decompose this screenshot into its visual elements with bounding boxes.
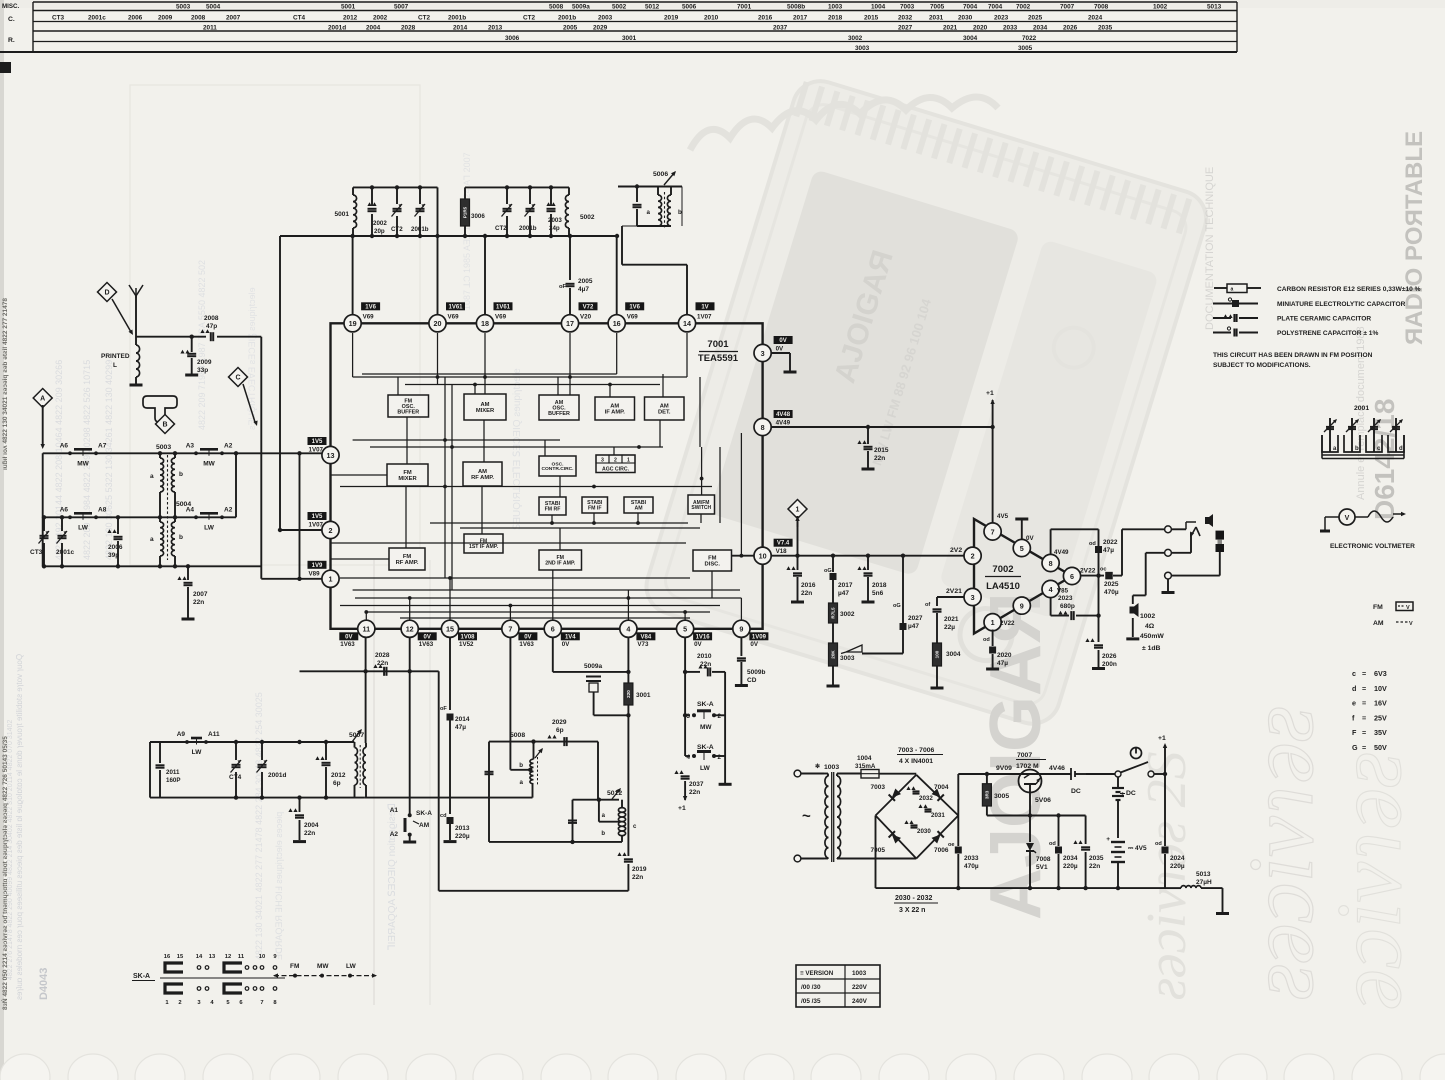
svg-text:1V5: 1V5	[312, 439, 323, 445]
svg-text:DET.: DET.	[658, 409, 671, 415]
svg-text:0V: 0V	[345, 634, 352, 640]
svg-text:12: 12	[406, 625, 414, 634]
amp pin 6 output	[1063, 567, 1080, 584]
svg-text:V: V	[1406, 605, 1410, 611]
wire 5006 bottom	[637, 225, 671, 227]
pin 11 of IC7001	[358, 620, 375, 637]
resistor 3001	[624, 683, 633, 705]
ghost radio watermark	[640, 74, 1213, 730]
svg-text:SK-A: SK-A	[133, 973, 150, 980]
capacitor 2021 22u	[936, 597, 938, 606]
svg-text:1V4: 1V4	[565, 634, 576, 640]
FM OSC buffer block	[388, 395, 429, 417]
wiper wire to 2027	[862, 653, 903, 655]
svg-text:DOCUMENTATION TECHNIQUE: DOCUMENTATION TECHNIQUE	[1204, 167, 1216, 330]
svg-text:7: 7	[260, 1000, 263, 1006]
pin 18 of IC7001	[476, 315, 493, 332]
svg-text:5002: 5002	[612, 4, 627, 11]
svg-text:DISC.: DISC.	[705, 561, 721, 567]
pin 6 of IC7001	[544, 620, 561, 637]
output wire	[1081, 575, 1104, 577]
svg-text:/00 /30: /00 /30	[801, 984, 821, 991]
svg-text:2031: 2031	[931, 812, 945, 819]
svg-text:4Ω: 4Ω	[1145, 623, 1155, 630]
wire pin19 drop	[352, 236, 354, 324]
svg-text:2020: 2020	[973, 25, 988, 32]
svg-text:1702 M: 1702 M	[1016, 763, 1039, 770]
AM OSC buffer block	[539, 395, 579, 420]
amp pin 5 ground up	[1021, 519, 1023, 540]
svg-text:2034: 2034	[1063, 855, 1078, 862]
FM 1st IF amp block	[464, 534, 503, 553]
svg-text:ꓢƎUϘIЯꓕƆƎꓶƎ ꓢƎƆƎIԚ ƨɘupiɿtɔɘ: ꓢƎUϘIЯꓕƆƎꓶƎ ꓢƎƆƎIԚ ƨɘupiɿtɔɘle	[512, 368, 523, 530]
svg-text:200n: 200n	[1102, 661, 1117, 668]
svg-text:2013: 2013	[455, 825, 470, 832]
svg-text:220µ: 220µ	[455, 833, 470, 840]
svg-text:2028: 2028	[401, 25, 416, 32]
svg-text:5013: 5013	[1196, 871, 1211, 878]
svg-text:D: D	[104, 290, 109, 297]
node C diamond	[229, 368, 248, 387]
op-amp 7002 triangle	[974, 519, 1072, 634]
svg-text:6p: 6p	[333, 780, 341, 787]
svg-text:315mA: 315mA	[855, 763, 876, 770]
mains version table	[796, 965, 880, 1007]
svg-text:ELECTRONIC VOLTMETER: ELECTRONIC VOLTMETER	[1330, 543, 1415, 550]
wire 2004 junction	[297, 740, 301, 744]
diode 7006	[931, 831, 944, 844]
svg-text:5009b: 5009b	[747, 669, 765, 676]
svg-text:D4043: D4043	[38, 968, 50, 1000]
svg-text:11: 11	[238, 954, 245, 960]
svg-text:R.: R.	[8, 37, 15, 44]
pin 1 of IC7001	[322, 570, 339, 587]
svg-text:6: 6	[551, 625, 555, 634]
svg-text:7004: 7004	[988, 4, 1003, 11]
svg-text:V69: V69	[363, 313, 375, 320]
pin 8 supply rail	[771, 426, 992, 428]
svg-text:2006: 2006	[108, 544, 123, 551]
IC internal wiring mesh	[353, 376, 687, 378]
trimmer 2001b FM osc	[419, 187, 421, 204]
svg-text:7008: 7008	[1036, 856, 1051, 863]
svg-text:2005: 2005	[578, 278, 593, 285]
svg-text:A11: A11	[208, 731, 220, 738]
svg-text:ıuƃıł ıoʌ 4822 130 34021 ƨəɔəi: ıuƃıł ıoʌ 4822 130 34021 ƨəɔəiq ƨəb ətƨi…	[2, 298, 9, 470]
svg-text:b: b	[179, 471, 183, 478]
pin 14 of IC7001	[678, 315, 695, 332]
svg-text:2023: 2023	[1058, 595, 1073, 602]
wire pin2 feed	[280, 529, 331, 531]
wire pin5 chain	[684, 637, 686, 756]
svg-text:100: 100	[935, 650, 940, 658]
wire pin14 up	[686, 265, 688, 324]
svg-text:3005: 3005	[994, 793, 1009, 800]
svg-text:4822 209 71984 1987 TCA 5550 4: 4822 209 71984 1987 TCA 5550 4822 502	[197, 260, 207, 430]
svg-text:CT2: CT2	[495, 225, 507, 232]
switch A6-A7 MW	[68, 451, 72, 455]
svg-text:5004: 5004	[176, 501, 191, 508]
svg-text:2029: 2029	[552, 719, 567, 726]
svg-text:47µ: 47µ	[455, 724, 466, 731]
jack contact 3	[1165, 572, 1172, 579]
svg-text:1003: 1003	[828, 4, 843, 11]
pin 3 ground	[771, 352, 790, 354]
capacitor 2008 47p	[210, 332, 212, 341]
svg-text:A1: A1	[390, 807, 399, 814]
svg-text:LW: LW	[192, 749, 203, 756]
svg-text:10: 10	[759, 552, 767, 561]
svg-text:2023: 2023	[994, 15, 1009, 22]
svg-text:b: b	[601, 831, 605, 837]
node A diamond	[33, 389, 52, 408]
svg-text:2025: 2025	[1104, 581, 1119, 588]
svg-text:2V22: 2V22	[1080, 568, 1096, 575]
svg-text:V85: V85	[1057, 588, 1069, 595]
svg-text:2018: 2018	[872, 582, 887, 589]
IF rail to 5008	[365, 797, 533, 799]
OSC contr circ block	[539, 456, 576, 476]
pin 10 of IC7001	[754, 547, 771, 564]
coil 5002	[568, 187, 570, 195]
svg-text:2V2: 2V2	[950, 547, 962, 554]
svg-text:1V07: 1V07	[309, 447, 324, 454]
svg-text:2001b: 2001b	[558, 15, 576, 22]
svg-text:2025: 2025	[1028, 15, 1043, 22]
svg-text:33p: 33p	[197, 367, 208, 374]
svg-text:A6: A6	[60, 506, 69, 513]
svg-text:22n: 22n	[700, 661, 711, 668]
svg-text:A2: A2	[224, 506, 233, 513]
wire pin7 into 5008	[509, 637, 511, 769]
AM RF amp block	[463, 462, 502, 486]
svg-text:LA4510: LA4510	[986, 581, 1020, 592]
speaker 1002 wire	[1146, 552, 1165, 554]
svg-text:b: b	[179, 534, 183, 541]
svg-text:PLATE CERAMIC CAPACITOR: PLATE CERAMIC CAPACITOR	[1277, 316, 1371, 323]
svg-text:2003: 2003	[598, 15, 613, 22]
svg-text:25V: 25V	[1374, 713, 1387, 722]
svg-text:0V: 0V	[524, 634, 531, 640]
wire pin12 down	[409, 637, 411, 815]
svg-text:7001: 7001	[737, 4, 752, 11]
svg-text:8: 8	[761, 423, 765, 432]
svg-text:V73: V73	[637, 641, 649, 648]
svg-text:LW: LW	[700, 765, 711, 772]
svg-text:7: 7	[508, 625, 512, 634]
svg-text:7005: 7005	[930, 4, 945, 11]
svg-text:A2: A2	[224, 442, 233, 449]
svg-text:CT4: CT4	[293, 15, 306, 22]
FM osc group rail	[353, 186, 438, 188]
svg-text:15: 15	[177, 954, 184, 960]
svg-text:LW: LW	[204, 524, 215, 531]
svg-text:7004: 7004	[963, 4, 978, 11]
svg-text:470µ: 470µ	[964, 863, 979, 870]
wire MW-LW link	[235, 453, 237, 517]
svg-text:1V6: 1V6	[365, 304, 376, 310]
bridge rectifier diamond	[876, 775, 917, 816]
capacitor 2018 5n6	[866, 554, 870, 558]
pin 12 of IC7001	[401, 620, 418, 637]
svg-text:TEA5591: TEA5591	[698, 353, 739, 364]
wire antenna to C2008	[136, 336, 206, 338]
capacitor 2034 220u	[1056, 813, 1060, 817]
svg-text:A2: A2	[390, 831, 399, 838]
speaker 1002	[1130, 603, 1139, 617]
svg-text:1V08: 1V08	[460, 634, 475, 640]
svg-text:470µ: 470µ	[1104, 589, 1119, 596]
svg-text:cd: cd	[440, 813, 447, 819]
svg-text:27µH: 27µH	[1196, 879, 1212, 886]
amp pin 7 supply wire	[992, 427, 994, 523]
svg-text:+: +	[1106, 836, 1110, 843]
svg-text:əɔivɿəƨ: əɔivɿəƨ	[1318, 752, 1420, 1010]
svg-text:16: 16	[164, 954, 171, 960]
svg-text:2026: 2026	[1102, 653, 1117, 660]
svg-text:PRINTED: PRINTED	[101, 353, 130, 360]
svg-text:5V1: 5V1	[1036, 864, 1048, 871]
svg-text:4822 130 34021 4822 277 21478: 4822 130 34021 4822 277 21478 4822 284 3…	[254, 692, 264, 960]
svg-text:7002: 7002	[1016, 4, 1031, 11]
svg-text:2001c: 2001c	[56, 549, 74, 556]
svg-text:3002: 3002	[848, 35, 863, 42]
svg-text:L: L	[113, 362, 117, 369]
svg-text:0V: 0V	[776, 346, 784, 353]
svg-text:FM: FM	[290, 963, 299, 970]
wire MW line	[43, 452, 331, 454]
svg-text:18: 18	[481, 319, 489, 328]
svg-text:2027: 2027	[898, 25, 913, 32]
svg-text:5013: 5013	[1207, 4, 1222, 11]
5008 cap on left edge	[485, 771, 494, 773]
svg-text:5003: 5003	[156, 444, 171, 451]
svg-text:12: 12	[225, 954, 231, 960]
FM tuning rail bottom	[150, 797, 365, 799]
svg-text:2002: 2002	[373, 15, 388, 22]
capacitor 2011 160P	[159, 742, 161, 763]
svg-text:2017: 2017	[793, 15, 808, 22]
svg-text:6p: 6p	[556, 727, 564, 734]
svg-text:CT2: CT2	[418, 15, 431, 22]
svg-text:A7: A7	[98, 442, 107, 449]
wire mixer feed down	[299, 453, 301, 579]
svg-text:3004: 3004	[963, 35, 978, 42]
capacitor 2033 470u	[957, 816, 959, 847]
STABI AM block	[624, 497, 653, 513]
pin 13 of IC7001	[322, 446, 339, 463]
svg-text:4V49: 4V49	[776, 420, 791, 427]
svg-text:a: a	[1231, 287, 1234, 293]
svg-text:BUFFER: BUFFER	[548, 411, 570, 417]
trimmer CT2 AM osc	[506, 187, 508, 204]
svg-text:1: 1	[329, 575, 333, 584]
svg-text:22n: 22n	[193, 599, 204, 606]
svg-text:b: b	[1355, 446, 1359, 452]
svg-text:V72: V72	[583, 304, 594, 310]
svg-text:2: 2	[329, 526, 333, 535]
bridge minus rail down	[875, 816, 877, 889]
svg-text:1V16: 1V16	[696, 634, 711, 640]
svg-text:5003: 5003	[176, 4, 191, 11]
svg-text:1003: 1003	[852, 970, 867, 977]
feedback loop wire	[1050, 529, 1052, 554]
trimmer 2001b AM osc	[529, 187, 531, 204]
power switch	[1086, 773, 1115, 775]
electronic voltmeter symbol	[1339, 509, 1355, 525]
svg-text:CT2: CT2	[523, 15, 536, 22]
svg-text:1004: 1004	[871, 4, 886, 11]
capacitor 2032	[906, 786, 915, 790]
transformer 5006 windings	[657, 187, 659, 196]
pin 7 of IC7001	[502, 620, 519, 637]
svg-text:CT3: CT3	[52, 15, 65, 22]
svg-text:2021: 2021	[944, 616, 959, 623]
svg-text:1002: 1002	[1153, 4, 1168, 11]
svg-text:5009a: 5009a	[584, 663, 602, 670]
svg-text:220µ: 220µ	[1063, 863, 1078, 870]
capacitor 2019 22n	[617, 852, 626, 856]
svg-text:5n6: 5n6	[872, 590, 884, 597]
inductor 5013 27uH	[1181, 886, 1201, 889]
headphone plug symbol	[1185, 522, 1187, 529]
svg-text:5007: 5007	[394, 4, 409, 11]
svg-text:22n: 22n	[874, 455, 885, 462]
capacitor 2007 22n	[186, 564, 190, 568]
svg-text:+1: +1	[678, 805, 686, 812]
svg-text:0V: 0V	[750, 641, 758, 648]
svg-text:DC: DC	[1071, 788, 1081, 795]
wire secondary top	[837, 773, 861, 775]
svg-text:5V06: 5V06	[1035, 797, 1051, 804]
svg-text:a: a	[647, 209, 651, 216]
wire switch to +1	[1154, 773, 1165, 775]
svg-text:1V09: 1V09	[752, 634, 767, 640]
svg-text:3003: 3003	[855, 45, 870, 52]
svg-text:c: c	[1352, 669, 1356, 678]
svg-text:a: a	[520, 779, 524, 786]
pin 20 of IC7001	[429, 315, 446, 332]
jack contact 1	[1165, 526, 1172, 533]
svg-text:5001: 5001	[341, 4, 356, 11]
svg-text:DC: DC	[1126, 790, 1136, 797]
svg-text:2016: 2016	[801, 582, 816, 589]
svg-text:2: 2	[971, 552, 975, 561]
trimmer 2001c	[61, 517, 63, 531]
svg-text:2012: 2012	[331, 772, 346, 779]
diode 7003	[889, 788, 902, 801]
svg-text:ƨəɔivɿəƨ: ƨəɔivɿəƨ	[1230, 706, 1332, 1000]
svg-text:2001d: 2001d	[328, 25, 346, 32]
svg-text:A8: A8	[98, 506, 107, 513]
svg-text:2V22: 2V22	[1000, 620, 1015, 627]
svg-text:16: 16	[613, 319, 621, 328]
amp pin 5	[1013, 539, 1030, 556]
IC 7001 outline	[331, 323, 763, 629]
svg-text:2029: 2029	[593, 25, 608, 32]
svg-text:oG: oG	[893, 603, 901, 609]
svg-text:160P: 160P	[166, 777, 180, 784]
svg-text:A: A	[40, 396, 45, 403]
svg-text:20: 20	[434, 319, 442, 328]
svg-text:AM: AM	[634, 505, 642, 511]
svg-text:2V21: 2V21	[946, 588, 962, 595]
supply +1 arrow near amp	[990, 425, 994, 429]
svg-text:2024: 2024	[1088, 15, 1103, 22]
legend polystyrene cap	[1213, 332, 1231, 334]
left margin mark	[0, 62, 11, 73]
svg-text:1V07: 1V07	[697, 313, 712, 320]
amp pin 9	[1013, 597, 1030, 614]
svg-text:3004: 3004	[946, 651, 961, 658]
svg-text:240V: 240V	[852, 998, 868, 1005]
svg-text:5: 5	[1020, 544, 1024, 553]
svg-text:2028: 2028	[375, 652, 390, 659]
svg-text:9: 9	[739, 625, 743, 634]
svg-text:2008: 2008	[204, 315, 219, 322]
svg-text:4: 4	[626, 625, 630, 634]
resistor 3004	[933, 643, 942, 666]
capacitor 2010 22n	[685, 671, 700, 673]
svg-text:ƨƎUǬIЯTƆƎⱯƎ ƨƎƆƎIƷ ƨɘupiɿtɔɘlɘ: ƨƎUǬIЯTƆƎⱯƎ ƨƎƆƎIƷ ƨɘupiɿtɔɘlɘ	[247, 287, 257, 430]
svg-text:1: 1	[991, 618, 995, 627]
wire bottom AM return	[439, 890, 629, 892]
FM discriminator block	[693, 550, 732, 571]
svg-text:=: =	[1362, 669, 1366, 678]
svg-text:0V: 0V	[562, 641, 570, 648]
pin 3 of IC7001	[754, 344, 771, 361]
STABI FM IF block	[582, 497, 608, 513]
pin 8 of IC7001	[754, 418, 771, 435]
fuse 1004 315mA	[861, 770, 879, 779]
svg-text:a: a	[150, 473, 154, 480]
svg-text:2027: 2027	[908, 615, 923, 622]
legend carbon resistor	[1214, 287, 1227, 289]
svg-text:SUBJECT TO MODIFICATIONS.: SUBJECT TO MODIFICATIONS.	[1213, 362, 1311, 369]
svg-text:9V09: 9V09	[996, 765, 1012, 772]
svg-text:+1: +1	[1158, 735, 1166, 742]
svg-text:2005: 2005	[563, 25, 578, 32]
svg-text:220: 220	[626, 690, 631, 698]
svg-text:5009a: 5009a	[572, 4, 590, 11]
speaker glyph small	[1205, 514, 1213, 527]
svg-text:7005: 7005	[871, 847, 886, 854]
svg-text:d: d	[1399, 446, 1403, 452]
svg-text:5001: 5001	[335, 211, 350, 218]
svg-text:2030: 2030	[917, 828, 931, 835]
wire top rail down to pin2	[279, 236, 281, 530]
svg-text:R7L5: R7L5	[831, 607, 836, 619]
svg-text:6V3: 6V3	[1374, 669, 1387, 678]
capacitor 2006 39p	[117, 517, 119, 534]
svg-text:1V63: 1V63	[340, 641, 355, 648]
amp pin 2	[964, 547, 981, 564]
svg-text:2010: 2010	[697, 653, 712, 660]
svg-text:2007: 2007	[226, 15, 241, 22]
switch A3-A2 MW	[194, 451, 198, 455]
svg-text:7004: 7004	[934, 784, 949, 791]
svg-text:8: 8	[1049, 559, 1053, 568]
svg-text:2033: 2033	[1003, 25, 1018, 32]
svg-text:oF: oF	[440, 706, 447, 712]
svg-text:V84: V84	[641, 634, 652, 640]
capacitor 2005 4u7	[569, 236, 571, 280]
svg-text:4V46: 4V46	[1049, 765, 1065, 772]
wire LW line	[43, 516, 236, 518]
capacitor 2031	[918, 804, 927, 808]
svg-text:ƨəɔivɿəƨ 2S: ƨəɔivɿəƨ 2S	[1136, 751, 1198, 1000]
svg-text:2011: 2011	[166, 769, 180, 776]
